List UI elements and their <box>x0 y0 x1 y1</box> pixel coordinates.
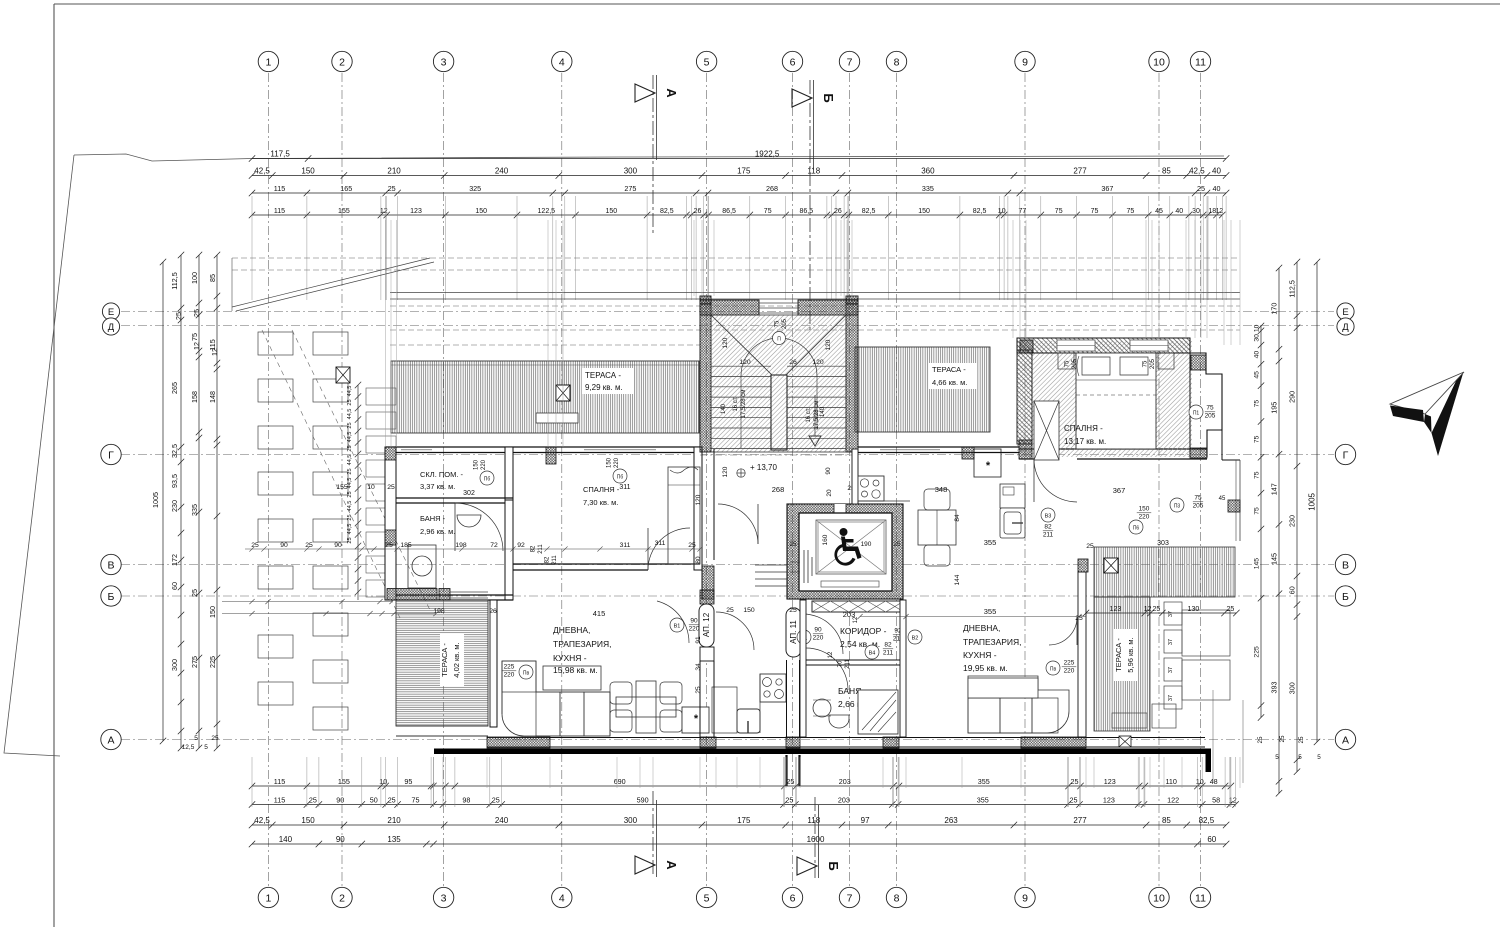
dining table left apt <box>636 681 656 733</box>
svg-text:90: 90 <box>825 467 832 475</box>
right living dim chain y616 <box>860 616 1086 618</box>
svg-text:70: 70 <box>838 660 844 667</box>
svg-text:85: 85 <box>1162 816 1171 825</box>
svg-text:5,96 кв. м.: 5,96 кв. м. <box>1126 637 1135 672</box>
loungers on terrace <box>1164 602 1182 625</box>
deep extension lines left building edge <box>385 220 387 447</box>
svg-text:355: 355 <box>984 607 997 616</box>
svg-text:Е: Е <box>108 307 114 318</box>
svg-text:5: 5 <box>704 56 710 68</box>
svg-text:12: 12 <box>210 348 219 356</box>
svg-text:144: 144 <box>954 574 961 585</box>
flue box terrace 5,96 <box>1104 558 1118 573</box>
svg-text:А: А <box>664 88 679 98</box>
vestibule walls АП.11 down to bottom band <box>786 660 788 737</box>
bath walls left apt <box>505 500 513 600</box>
svg-text:СПАЛНЯ -: СПАЛНЯ - <box>583 485 620 494</box>
svg-text:30: 30 <box>1192 208 1200 215</box>
svg-text:120: 120 <box>812 359 824 366</box>
svg-text:82: 82 <box>884 642 892 649</box>
svg-text:211: 211 <box>845 659 851 669</box>
svg-text:150: 150 <box>743 607 755 614</box>
svg-text:34: 34 <box>695 663 702 671</box>
toilet <box>829 715 849 728</box>
coffee table <box>543 666 601 690</box>
svg-text:100: 100 <box>190 272 199 284</box>
svg-text:86,5: 86,5 <box>722 208 736 215</box>
svg-text:165: 165 <box>340 184 352 193</box>
svg-text:25: 25 <box>192 309 201 317</box>
bedroom2 bottom door arc <box>1037 493 1079 535</box>
svg-text:220: 220 <box>614 457 620 468</box>
svg-text:ТРАПЕЗАРИЯ,: ТРАПЕЗАРИЯ, <box>553 639 612 649</box>
svg-text:75: 75 <box>1127 208 1135 215</box>
svg-text:86,5: 86,5 <box>799 208 813 215</box>
svg-text:80: 80 <box>695 556 702 564</box>
svg-text:335: 335 <box>190 504 199 516</box>
svg-text:75: 75 <box>1206 405 1214 412</box>
svg-text:82: 82 <box>1044 524 1052 531</box>
svg-text:170: 170 <box>1270 303 1279 315</box>
svg-text:42,5: 42,5 <box>1189 166 1205 175</box>
svg-text:40: 40 <box>1212 166 1221 175</box>
svg-text:367: 367 <box>1101 184 1113 193</box>
dashed line below stair <box>700 454 858 456</box>
svg-text:25: 25 <box>789 541 797 548</box>
svg-text:240: 240 <box>495 816 509 825</box>
svg-text:120: 120 <box>695 494 702 505</box>
svg-text:150: 150 <box>301 816 315 825</box>
svg-text:90: 90 <box>336 835 345 844</box>
terrace 4,02 label bg <box>440 634 464 686</box>
terrace 9,29 label bg <box>582 368 634 394</box>
svg-text:25: 25 <box>174 312 183 320</box>
svg-text:335: 335 <box>922 184 934 193</box>
svg-text:590: 590 <box>637 795 649 804</box>
svg-text:25: 25 <box>1153 606 1161 613</box>
svg-text:БАНЯ -: БАНЯ - <box>420 514 446 523</box>
svg-text:40: 40 <box>1213 184 1221 193</box>
svg-text:В1: В1 <box>674 624 681 630</box>
svg-text:В2: В2 <box>912 636 919 642</box>
wall pier left <box>385 447 396 460</box>
right bedroom2 side labels <box>1170 498 1184 512</box>
svg-text:268: 268 <box>772 485 785 494</box>
svg-text:12: 12 <box>853 616 859 623</box>
svg-text:Г: Г <box>1343 449 1349 461</box>
svg-text:А: А <box>1342 734 1349 746</box>
kitchen hob left apt <box>760 674 786 702</box>
svg-text:3: 3 <box>441 892 447 904</box>
svg-text:93,5: 93,5 <box>170 474 179 488</box>
svg-text:90: 90 <box>280 542 288 549</box>
landing door arc <box>718 504 758 544</box>
svg-text:311: 311 <box>655 540 666 547</box>
extension lines below building into bottom dims <box>486 757 488 788</box>
small steps left of elevator <box>755 564 787 566</box>
svg-text:302: 302 <box>463 490 475 497</box>
svg-text:220: 220 <box>1139 514 1150 521</box>
flue box left of terrace <box>336 367 350 383</box>
svg-text:3: 3 <box>441 56 447 68</box>
svg-text:Пб: Пб <box>617 475 624 481</box>
svg-text:158: 158 <box>190 391 199 403</box>
terrace 9,29 hatch <box>391 361 699 433</box>
svg-text:225: 225 <box>1064 660 1075 667</box>
elevator cross brace <box>816 520 886 574</box>
svg-text:60: 60 <box>1288 586 1297 594</box>
dim row 115..40 <box>249 190 1230 196</box>
bath wc boiler <box>408 545 436 588</box>
svg-text:140: 140 <box>721 403 727 414</box>
svg-text:275: 275 <box>624 184 636 193</box>
svg-text:155: 155 <box>338 208 350 215</box>
svg-text:1: 1 <box>265 892 271 904</box>
bottom dims row3 <box>249 822 1230 828</box>
vestibule walls АП.12 down to bottom band <box>699 661 701 737</box>
left dim chains <box>162 262 164 741</box>
svg-text:11: 11 <box>1195 56 1206 68</box>
bedroom2 dark piers <box>1020 340 1033 353</box>
svg-text:3,37 кв. м.: 3,37 кв. м. <box>420 482 455 491</box>
dim row 115..12 <box>249 212 1226 218</box>
АП.12 plate <box>699 604 714 647</box>
svg-text:75: 75 <box>1254 507 1261 515</box>
svg-text:10: 10 <box>1153 892 1165 904</box>
svg-text:2: 2 <box>339 892 345 904</box>
svg-text:145: 145 <box>1270 553 1279 565</box>
bedroom1 door arc <box>648 528 690 570</box>
ramp steps small rects <box>366 388 396 405</box>
svg-text:75: 75 <box>764 208 772 215</box>
terrace bench bottom <box>1112 713 1147 728</box>
wall band with X between elevator and corridor <box>812 601 904 612</box>
svg-text:25: 25 <box>190 589 199 597</box>
counterweight rails <box>803 550 805 583</box>
svg-text:16 ст.: 16 ст. <box>806 407 812 422</box>
svg-text:ДНЕВНА,: ДНЕВНА, <box>553 625 590 635</box>
bottom dims small2 <box>249 801 1239 807</box>
svg-text:150: 150 <box>918 208 930 215</box>
svg-text:АП. 11: АП. 11 <box>789 620 798 644</box>
svg-text:7: 7 <box>847 56 853 68</box>
svg-text:37: 37 <box>1168 695 1174 701</box>
svg-text:25: 25 <box>388 795 396 804</box>
balcony rail double lines <box>390 292 1240 294</box>
table right sofa <box>968 678 1038 698</box>
svg-text:225: 225 <box>504 664 515 671</box>
svg-text:140: 140 <box>279 835 293 844</box>
svg-text:25: 25 <box>385 542 393 549</box>
svg-text:5: 5 <box>704 892 710 904</box>
svg-text:Пв: Пв <box>523 671 530 677</box>
sofa left apartment <box>502 661 610 736</box>
svg-text:265: 265 <box>170 382 179 394</box>
section mark А <box>635 84 655 102</box>
svg-text:48: 48 <box>1210 777 1218 786</box>
bottom wall band windows <box>487 737 1205 739</box>
terrace 4,02 bottom edge <box>396 725 488 727</box>
svg-text:355: 355 <box>977 795 989 804</box>
elevator sill strip <box>821 581 879 587</box>
svg-text:393: 393 <box>1270 682 1279 694</box>
terrace 4,66 hatch <box>855 347 990 432</box>
section mark Б <box>797 857 817 875</box>
bed bedroom2 <box>1076 353 1156 449</box>
svg-text:АП. 12: АП. 12 <box>702 612 711 637</box>
bottom dims row4 <box>249 841 1230 847</box>
svg-text:26: 26 <box>834 208 842 215</box>
svg-text:1922,5: 1922,5 <box>755 149 780 158</box>
kitchen counter left apt <box>759 674 761 733</box>
bedroom2 left wall band <box>1017 350 1032 444</box>
svg-text:211: 211 <box>538 544 544 554</box>
svg-text:118: 118 <box>807 166 820 175</box>
svg-text:Г: Г <box>108 449 114 461</box>
svg-text:25: 25 <box>309 795 317 804</box>
svg-text:211: 211 <box>552 555 558 565</box>
svg-text:303: 303 <box>1157 540 1169 547</box>
svg-text:4: 4 <box>559 892 565 904</box>
svg-text:12,5: 12,5 <box>182 744 195 751</box>
svg-text:Пв: Пв <box>1050 667 1057 673</box>
svg-text:120: 120 <box>722 337 729 348</box>
vertical grid axes (dash-dot) <box>267 73 269 886</box>
svg-text:123: 123 <box>1104 777 1116 786</box>
svg-text:85: 85 <box>208 274 217 282</box>
svg-text:37: 37 <box>1168 611 1174 617</box>
svg-text:82,5: 82,5 <box>862 208 876 215</box>
svg-text:5: 5 <box>204 744 208 751</box>
elevator cab <box>799 513 892 591</box>
bottom dims small1 <box>249 783 1234 789</box>
stair V lines <box>711 315 772 375</box>
svg-text:75: 75 <box>1055 208 1063 215</box>
svg-text:135: 135 <box>387 835 401 844</box>
svg-text:155: 155 <box>336 484 348 491</box>
bedroom2 floor hatch <box>1017 341 1192 457</box>
svg-text:40: 40 <box>1175 208 1183 215</box>
elevator shaft walls <box>787 504 903 599</box>
stair interior hatch <box>711 315 846 452</box>
left apartment top wall <box>385 446 700 448</box>
interior dim chain line y549 <box>245 548 700 550</box>
entry vestibule walls below <box>785 755 787 786</box>
entry door arcs <box>716 612 754 650</box>
extension lines bottom <box>252 757 1236 807</box>
svg-text:355: 355 <box>978 777 990 786</box>
svg-text:325: 325 <box>469 184 481 193</box>
svg-text:75: 75 <box>190 333 199 341</box>
svg-text:7,30 кв. м.: 7,30 кв. м. <box>583 498 618 507</box>
svg-text:37: 37 <box>1168 667 1174 673</box>
svg-text:150: 150 <box>605 208 617 215</box>
svg-text:25: 25 <box>789 607 797 614</box>
svg-text:30: 30 <box>1254 334 1261 342</box>
svg-text:1600: 1600 <box>807 835 825 844</box>
svg-text:220: 220 <box>813 635 824 642</box>
svg-text:5: 5 <box>1317 754 1321 761</box>
svg-text:25: 25 <box>347 468 353 474</box>
right kitchen top wall <box>858 446 1019 448</box>
terrace 4,02 hatch <box>396 600 488 726</box>
wardrobe X <box>1034 401 1059 460</box>
svg-text:75: 75 <box>1254 435 1261 443</box>
grid axis bubbles 1-11 top <box>258 51 278 71</box>
svg-text:95: 95 <box>404 777 412 786</box>
terrain / property boundary line <box>74 154 1224 161</box>
svg-text:150: 150 <box>208 606 217 618</box>
svg-text:9: 9 <box>1022 892 1028 904</box>
svg-text:75: 75 <box>1091 208 1099 215</box>
svg-text:311: 311 <box>620 542 631 549</box>
svg-text:198: 198 <box>433 608 445 615</box>
svg-text:225: 225 <box>208 656 217 668</box>
bedroom2 outline to terrace <box>1221 430 1223 460</box>
svg-text:44,5: 44,5 <box>347 386 353 397</box>
stair down arrow <box>809 436 821 446</box>
svg-text:25: 25 <box>786 777 794 786</box>
svg-text:85: 85 <box>1162 166 1171 175</box>
svg-text:112,5: 112,5 <box>1288 280 1297 297</box>
svg-text:9: 9 <box>1022 56 1028 68</box>
svg-text:220: 220 <box>481 459 487 470</box>
svg-text:230: 230 <box>1288 515 1297 527</box>
svg-text:25: 25 <box>695 686 702 694</box>
svg-text:16 ст.: 16 ст. <box>733 396 739 411</box>
svg-text:90: 90 <box>690 618 698 625</box>
dining table right apt <box>918 510 956 545</box>
svg-text:32,5: 32,5 <box>170 444 179 458</box>
svg-text:190: 190 <box>861 541 872 548</box>
svg-text:90: 90 <box>334 542 342 549</box>
bath sink circle <box>813 699 831 717</box>
svg-text:ТЕРАСА -: ТЕРАСА - <box>585 371 621 380</box>
bedroom1 bed <box>668 467 700 564</box>
dim row 42,5..40 <box>249 172 1230 178</box>
svg-text:Б: Б <box>826 861 841 870</box>
svg-text:+ 13,70: + 13,70 <box>750 463 777 472</box>
svg-text:А: А <box>664 860 679 870</box>
elevator door gap top <box>834 504 846 513</box>
svg-text:175: 175 <box>737 166 751 175</box>
svg-text:115: 115 <box>274 777 285 786</box>
svg-text:75: 75 <box>1143 360 1149 367</box>
svg-text:122,5: 122,5 <box>538 208 556 215</box>
svg-text:10: 10 <box>379 777 387 786</box>
svg-text:*: * <box>694 713 699 725</box>
bath door arc <box>806 648 848 690</box>
svg-text:8: 8 <box>894 56 900 68</box>
right living walls <box>852 449 858 504</box>
svg-text:220: 220 <box>689 626 700 633</box>
svg-text:Д: Д <box>1342 322 1349 333</box>
svg-text:10: 10 <box>1254 324 1261 332</box>
svg-text:277: 277 <box>1073 816 1087 825</box>
svg-text:9,29 кв. м.: 9,29 кв. м. <box>585 383 623 392</box>
svg-text:230: 230 <box>170 500 179 512</box>
shower <box>858 690 898 734</box>
svg-text:25: 25 <box>347 445 353 451</box>
door/window to terrace right <box>1080 647 1082 721</box>
left storage boxes column B <box>313 332 348 355</box>
svg-text:Д: Д <box>108 322 115 333</box>
svg-text:25: 25 <box>492 795 500 804</box>
svg-text:75: 75 <box>1194 495 1202 502</box>
svg-text:П: П <box>777 337 781 343</box>
svg-text:120: 120 <box>722 466 729 477</box>
svg-text:25: 25 <box>688 542 696 549</box>
svg-text:25: 25 <box>305 542 313 549</box>
svg-text:82: 82 <box>531 545 537 552</box>
svg-text:2,96 кв. м.: 2,96 кв. м. <box>420 527 455 536</box>
B1 door label <box>670 618 684 632</box>
terrace door arc right apt <box>1049 617 1077 645</box>
stair center divider <box>771 375 787 450</box>
svg-text:690: 690 <box>614 777 626 786</box>
svg-text:12: 12 <box>192 342 201 350</box>
door arc bedroom2 <box>1034 459 1077 502</box>
terrace dims <box>1083 610 1240 616</box>
svg-text:75: 75 <box>1254 471 1261 479</box>
grid axis bubbles 1-11 bottom <box>258 887 278 907</box>
svg-text:147: 147 <box>1270 483 1279 495</box>
svg-text:6: 6 <box>790 56 796 68</box>
bath АП.11 walls <box>800 659 905 661</box>
svg-text:72: 72 <box>490 542 498 549</box>
svg-text:150: 150 <box>301 166 315 175</box>
svg-text:П1: П1 <box>1193 411 1200 417</box>
section line B bottom <box>814 797 816 878</box>
svg-text:СКЛ. ПОМ. -: СКЛ. ПОМ. - <box>420 470 464 479</box>
svg-text:82,5: 82,5 <box>1199 816 1215 825</box>
grid axis bubbles letters right <box>1337 303 1354 320</box>
svg-text:13,17 кв. м.: 13,17 кв. м. <box>1064 437 1106 446</box>
svg-text:277: 277 <box>1073 166 1087 175</box>
svg-text:4,66 кв. м.: 4,66 кв. м. <box>932 378 967 387</box>
svg-text:123: 123 <box>1103 795 1115 804</box>
svg-text:205: 205 <box>1205 413 1216 420</box>
svg-text:Б: Б <box>1342 591 1349 603</box>
svg-text:25: 25 <box>726 607 734 614</box>
svg-text:25: 25 <box>1227 606 1235 613</box>
svg-text:12: 12 <box>828 651 834 658</box>
svg-text:120: 120 <box>739 359 751 366</box>
right chain2 <box>1294 259 1300 775</box>
dashed slope lines left area <box>262 330 400 618</box>
svg-text:75: 75 <box>1254 400 1261 408</box>
extension lines from top dims down to plan <box>252 196 1226 300</box>
svg-text:В: В <box>1342 559 1349 571</box>
entry walls <box>700 590 714 604</box>
section line B top <box>809 80 811 330</box>
svg-text:367: 367 <box>1113 486 1126 495</box>
kitchen hob right apt <box>858 476 884 501</box>
svg-text:145: 145 <box>1254 558 1261 570</box>
svg-text:210: 210 <box>387 816 401 825</box>
door arc living top right <box>657 601 689 643</box>
svg-text:25: 25 <box>1257 736 1264 744</box>
svg-text:25: 25 <box>387 484 395 491</box>
svg-text:203: 203 <box>839 777 851 786</box>
svg-text:ДНЕВНА,: ДНЕВНА, <box>963 623 1000 633</box>
svg-text:Б: Б <box>821 93 836 102</box>
svg-text:205: 205 <box>1193 503 1204 510</box>
wheelchair symbol <box>834 528 861 566</box>
svg-text:130: 130 <box>1188 606 1200 613</box>
svg-text:45: 45 <box>1254 371 1261 379</box>
svg-text:8: 8 <box>894 892 900 904</box>
